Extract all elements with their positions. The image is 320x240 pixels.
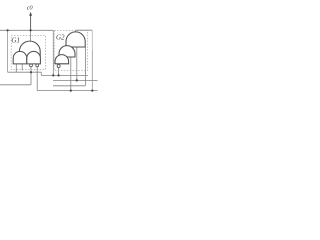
svg-text:c0: c0 [27, 4, 34, 11]
wire B jog down x41.3 [40, 72, 42, 75]
rail C y90.6 [37, 90, 97, 92]
bubble G2 input [57, 65, 60, 68]
wire mid vertical x53.3 [52, 30, 54, 75]
junction dot rail F x76.8 [76, 79, 78, 81]
junction dot wire B x30.9 [30, 71, 32, 73]
bubble G1 input right [36, 64, 39, 67]
arrow output c0 [30, 15, 32, 30]
wire G2 output top horizontal [76, 29, 93, 31]
wire G2 big dome right input x85.4 [84, 47, 86, 86]
svg-text:G2: G2 [56, 33, 65, 41]
junction dot rail C x92.8 [91, 90, 93, 92]
wire C vertical from G1 right bubble [36, 67, 38, 91]
bubble G1 input left [30, 64, 33, 67]
rail E y75.4 [41, 74, 88, 76]
gate G2 bottom dome [55, 55, 69, 64]
gate G1 right AND dome [27, 51, 41, 64]
wire B horizontal y72.2 [8, 71, 42, 73]
box G2 dashed [54, 31, 87, 71]
junction dot top left [7, 29, 9, 31]
rail F y80.4 [53, 79, 98, 81]
wire G1 output stub [30, 30, 32, 41]
junction dot rail C x70.8 [70, 90, 72, 92]
wire A vertical to G1 left bubble [30, 67, 32, 85]
gate G2 OR big dome [66, 32, 85, 47]
wire feedback left vertical x7.6 [7, 30, 9, 72]
box G1 dashed [11, 36, 45, 70]
wire G1 input x22 [21, 64, 23, 71]
junction dot rail E x53.3 [52, 74, 54, 76]
wire G2 big dome input x76.8 [76, 47, 78, 80]
wire output net top horizontal [0, 29, 53, 31]
wire G2 output stub [75, 30, 77, 32]
gate G1 OR big dome [19, 41, 40, 56]
wire feedback right vertical x92.8 [91, 30, 93, 50]
svg-text:G1: G1 [11, 37, 20, 45]
gate G2 middle dome [59, 46, 75, 57]
gate G1 left AND dome [13, 51, 27, 63]
rail G y85.8 [53, 85, 85, 87]
junction dot rail E x58.6 [58, 74, 60, 76]
wire G1 input x16.3 [15, 64, 17, 72]
wire G2 bubble input down x58.6 [58, 68, 60, 76]
junction dot G1 output [30, 29, 32, 31]
wire A horizontal y84.8 [0, 84, 31, 86]
wire G2 middle dome input x70.8 [70, 57, 72, 91]
